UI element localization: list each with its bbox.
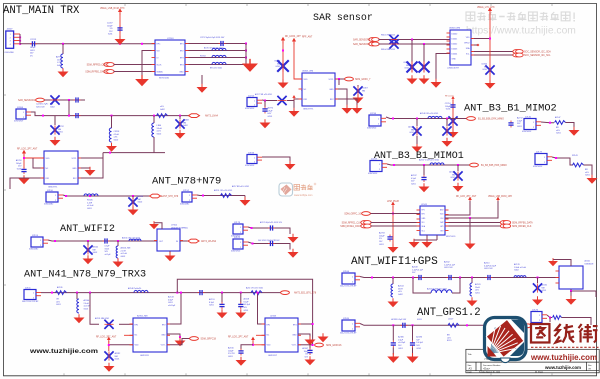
capacitor A2186 [410, 341, 415, 348]
svg-text:G201 50V: G201 50V [444, 267, 453, 269]
wire stub [240, 293, 242, 303]
svg-text:NM: NM [406, 65, 409, 67]
ground [422, 239, 433, 248]
wire stub [76, 293, 78, 299]
svg-text:A2147: A2147 [555, 116, 560, 119]
svg-text:G402: G402 [121, 256, 126, 258]
ic U2301 [133, 318, 167, 352]
svg-text:www.tuzhijie.com: www.tuzhijie.com [530, 352, 597, 362]
connector J2217 [368, 158, 387, 175]
wire stub [392, 325, 394, 340]
wire NC [256, 334, 265, 336]
svg-text:U6301_NM: U6301_NM [302, 71, 313, 73]
wire rffe6 dat [445, 222, 501, 224]
svg-text:G201: G201 [404, 68, 409, 70]
junction [179, 336, 181, 338]
wire vreg path [445, 201, 498, 218]
power VREG_L7C [488, 7, 492, 14]
wire RF1 [294, 99, 302, 109]
inductor A3216 [116, 246, 118, 258]
svg-text:D0003: D0003 [452, 49, 458, 51]
wire to box [393, 213, 420, 215]
svg-text:NM: NM [138, 199, 141, 201]
svg-text:C6307: C6307 [362, 88, 368, 90]
svg-text:L3N6: L3N6 [157, 125, 162, 127]
wire rail [452, 100, 454, 130]
wire RF1 riser [258, 293, 266, 324]
wire cap stub [241, 345, 253, 349]
svg-text:4.3nH: 4.3nH [114, 134, 120, 136]
svg-text:A2110: A2110 [484, 262, 489, 265]
svg-text:6180143B2: 6180143B2 [44, 204, 53, 206]
connector J2194 [245, 152, 262, 167]
svg-text:SDM_GRFC16: SDM_GRFC16 [326, 345, 342, 347]
svg-text:J2113: J2113 [32, 235, 39, 237]
svg-text:SCL: SCL [466, 54, 470, 56]
svg-text:G201: G201 [108, 34, 113, 36]
ground [305, 336, 316, 345]
inductor L7214 [212, 55, 226, 57]
offpage SDM_GRFC_7 [345, 77, 354, 81]
ground [285, 161, 296, 170]
wire VDD2 [109, 344, 133, 346]
svg-text:NM: NM [542, 287, 545, 289]
svg-text:A2108: A2108 [412, 266, 418, 269]
svg-text:G402: G402 [114, 139, 119, 141]
offpage gps ant [523, 324, 532, 328]
svg-text:J2184: J2184 [343, 271, 350, 273]
capacitor C2215 NM [448, 116, 457, 125]
wire stub2 [412, 348, 414, 355]
offpage B1_B3 PRX [470, 163, 479, 167]
capacitor A1218 [21, 167, 26, 174]
junction [245, 57, 247, 59]
junction [411, 39, 413, 41]
ground [104, 363, 115, 372]
svg-text:G201: G201 [411, 183, 416, 185]
wire stub [87, 241, 89, 246]
junction [176, 292, 178, 294]
ground [485, 80, 496, 89]
svg-text:A3216_NM: A3216_NM [121, 247, 131, 250]
wire stub [411, 40, 413, 63]
connector J2212 [245, 95, 262, 110]
junction [65, 195, 67, 197]
capacitor A2198 NM [453, 171, 462, 180]
svg-text:J2194: J2194 [248, 152, 255, 154]
svg-text:EANT_N78_N79: EANT_N78_N79 [161, 195, 179, 198]
svg-text:6180143B2: 6180143B2 [29, 249, 38, 251]
svg-text:A2176: A2176 [514, 263, 520, 266]
svg-text:RF1: RF1 [422, 209, 425, 211]
svg-text:G201 50V: G201 50V [36, 106, 45, 108]
svg-text:2.4nH: 2.4nH [87, 202, 93, 204]
svg-text:NM: NM [183, 122, 186, 124]
wire SCL [471, 54, 514, 56]
svg-text:R6104 NM G201: R6104 NM G201 [381, 49, 395, 51]
capacitor A2703 [387, 235, 392, 242]
svg-text:U7203: U7203 [167, 38, 174, 40]
svg-text:A2148 OR ±4% G201: A2148 OR ±4% G201 [420, 112, 438, 115]
svg-text:G201: G201 [450, 177, 455, 179]
svg-text:3.6nH: 3.6nH [157, 128, 163, 130]
ic U2143 [420, 206, 445, 235]
wire to RF1 [119, 323, 133, 325]
watermark chinese gray [466, 12, 575, 22]
svg-text:VDD: VDD [135, 344, 140, 346]
svg-text:±0.1nH: ±0.1nH [84, 306, 91, 308]
svg-text:0.6µF: 0.6µF [398, 339, 404, 341]
wire [566, 123, 575, 129]
svg-text:G402: G402 [138, 202, 143, 204]
svg-text:C6303: C6303 [403, 62, 409, 64]
svg-text:RF2: RF2 [162, 324, 166, 326]
capacitor C6304 NM [485, 65, 494, 74]
junction [392, 324, 394, 326]
svg-text:SDM_RFFE1_CLK: SDM_RFFE1_CLK [342, 223, 362, 225]
svg-text:G402: G402 [93, 252, 98, 254]
junction [240, 292, 242, 294]
ground [175, 130, 186, 139]
ic U6300 [450, 30, 471, 65]
svg-text:±4%: ±4% [56, 301, 60, 303]
svg-text:J2152: J2152 [183, 190, 190, 192]
watermark logo center [279, 183, 316, 197]
wire VDD [471, 38, 490, 40]
svg-text:A3142: A3142 [93, 246, 99, 249]
svg-text:J2110: J2110 [47, 190, 54, 192]
wire VCTL [167, 339, 190, 345]
ground [19, 175, 30, 184]
wire VCTL [298, 344, 313, 346]
svg-text:GND: GND [72, 168, 77, 170]
junction [251, 227, 253, 229]
svg-text:RF2: RF2 [422, 214, 425, 216]
resistor R2143 [573, 163, 584, 167]
junction [471, 277, 473, 279]
svg-text:SAR_SENSOR1: SAR_SENSOR1 [353, 43, 371, 46]
wire n41 main [41, 292, 283, 294]
inductor A2167 [430, 163, 444, 165]
junction [423, 43, 425, 45]
junction [109, 152, 111, 154]
svg-text:ANT3_LNA4: ANT3_LNA4 [205, 115, 219, 118]
ground [106, 143, 117, 152]
capacitor C2217 [219, 41, 226, 46]
wire stub [62, 44, 64, 54]
wire RF2 [167, 293, 181, 324]
svg-text:ANT_WIFI1+GPS: ANT_WIFI1+GPS [351, 256, 438, 268]
wire stub [446, 119, 448, 127]
svg-text:A3156 OR ±4% G201: A3156 OR ±4% G201 [122, 236, 140, 239]
ground [235, 309, 246, 318]
offpage SAR_SENSOR2 [36, 98, 45, 102]
wire gnd stub [469, 218, 471, 241]
inductor L7215 [212, 62, 226, 64]
junction [89, 195, 91, 197]
junction [392, 118, 394, 120]
wire stub [537, 278, 539, 284]
junction [392, 213, 394, 215]
junction [68, 99, 70, 101]
wire stub [416, 136, 418, 144]
wire rail [489, 12, 491, 80]
connector J2173 [231, 222, 248, 238]
wire [584, 165, 593, 176]
wire lc branch [413, 278, 431, 294]
svg-text:A2183 0.5µF 50V: A2183 0.5µF 50V [391, 318, 406, 321]
ground [165, 252, 176, 261]
wire stub [264, 101, 266, 108]
inductor A2148b [428, 116, 442, 118]
wire vert [68, 100, 70, 116]
offpage ANT5 [281, 291, 290, 295]
offpage SOC_SENSOR_I2C_SCL [513, 53, 523, 57]
svg-text:A3: A3 [469, 366, 473, 370]
svg-text:8.2pF: 8.2pF [244, 301, 250, 303]
svg-text:6190743D2: 6190743D2 [245, 165, 254, 167]
inductor A2163 [431, 290, 452, 293]
power RF_LDO [281, 37, 285, 44]
resistor A2139 [56, 291, 67, 295]
wire RF2 [185, 50, 246, 52]
svg-text:B1_B3_B35_PRX_MIMO: B1_B3_B35_PRX_MIMO [481, 165, 507, 167]
svg-text:RF2: RF2 [180, 51, 184, 53]
ic U2101 [559, 266, 583, 289]
svg-text:A3134: A3134 [138, 195, 145, 198]
resistor R6104 NM [389, 39, 398, 48]
wire [197, 194, 245, 197]
svg-text:NM: NM [58, 129, 61, 131]
svg-text:A2163 3.9nH±4% G402: A2163 3.9nH±4% G402 [427, 287, 447, 290]
svg-text:GM13111: GM13111 [140, 355, 150, 357]
svg-text:1.8nH ±0.1nH: 1.8nH ±0.1nH [514, 267, 527, 269]
svg-text:±0.1pF: ±0.1pF [105, 254, 112, 256]
ground [465, 240, 476, 249]
svg-text:sx9031ULTRT: sx9031ULTRT [447, 67, 460, 69]
svg-text:8.3µF: 8.3µF [209, 302, 215, 304]
ground [242, 59, 258, 72]
svg-text:56nH: 56nH [398, 288, 403, 290]
svg-text:ANT_N41_N78_N79_TRX3: ANT_N41_N78_N79_TRX3 [24, 269, 146, 280]
svg-text:1/0.3µF: 1/0.3µF [416, 342, 423, 344]
resistor A2147 [555, 121, 566, 125]
svg-text:www.tuzhijie.com: www.tuzhijie.com [544, 365, 581, 370]
svg-text:A2703: A2703 [379, 232, 385, 235]
svg-text:Rev: Rev [588, 365, 592, 367]
capacitor A2197 [421, 175, 426, 182]
svg-text:100pF: 100pF [228, 350, 234, 352]
svg-text:C2207: C2207 [107, 23, 113, 25]
junction [108, 344, 110, 346]
svg-text:A2218: A2218 [244, 298, 250, 301]
svg-text:Sheet: Sheet [538, 371, 543, 374]
ground [128, 206, 139, 215]
svg-text:G402: G402 [50, 106, 55, 108]
wire stub [412, 325, 414, 340]
svg-text:ANT_B3_B1_MIMO2: ANT_B3_B1_MIMO2 [464, 103, 557, 115]
ground [288, 249, 299, 258]
wire cross [103, 152, 165, 154]
junction [282, 50, 284, 52]
svg-text:A2139: A2139 [57, 286, 62, 289]
svg-text:A2198: A2198 [449, 171, 455, 174]
ground [74, 314, 85, 323]
inductor A2148 [134, 290, 148, 292]
svg-text:VCPL: VCPL [329, 79, 334, 81]
ground [217, 309, 228, 318]
wire rail [392, 206, 394, 245]
svg-text:RF2: RF2 [73, 178, 77, 180]
svg-text:A7213 47nH±4% G402: A7213 47nH±4% G402 [204, 47, 223, 50]
svg-text:ANT_WIFI2: ANT_WIFI2 [60, 224, 115, 235]
junction [245, 43, 247, 45]
power [468, 197, 472, 203]
svg-text:A2307: A2307 [302, 347, 308, 350]
wire [552, 157, 573, 165]
svg-text:VDD: VDD [304, 79, 309, 81]
svg-text:4.2%: 4.2% [57, 62, 62, 64]
inductor L7213 [212, 48, 226, 50]
wire top pin [154, 223, 162, 229]
ground [419, 183, 430, 192]
junction [141, 43, 143, 45]
wire rail [282, 42, 284, 81]
wire GND [335, 89, 347, 106]
svg-text:ANT_N78+N79: ANT_N78+N79 [152, 176, 221, 188]
svg-text:A2717: A2717 [517, 117, 523, 120]
wire [547, 315, 552, 318]
wire RF2 [335, 99, 357, 106]
terminal EANT [150, 194, 161, 198]
svg-text:±0.05µF: ±0.05µF [398, 342, 406, 344]
svg-text:E201: E201 [447, 340, 452, 342]
svg-text:ANT4_WLAN2: ANT4_WLAN2 [201, 240, 217, 243]
wire NC [124, 334, 133, 336]
junction [42, 115, 44, 117]
ground [318, 333, 329, 342]
svg-text:VIO: VIO [157, 51, 161, 53]
wire SDA [471, 51, 514, 53]
svg-text:6180143B2: 6180143B2 [180, 204, 189, 206]
capacitor C3308 NM [175, 119, 184, 128]
offpage SDM_RFFE6_CLK [500, 224, 510, 228]
junction [412, 324, 414, 326]
svg-text:G201: G201 [105, 248, 110, 250]
wire gnd1 [426, 235, 428, 240]
svg-text:Sunday, August 30, 2020: Sunday, August 30, 2020 [479, 371, 500, 374]
svg-text:J2111: J2111 [25, 287, 31, 289]
svg-text:C2217 4pF±0.1pF G201 50V: C2217 4pF±0.1pF G201 50V [200, 37, 225, 39]
junction [117, 240, 119, 242]
ground [288, 234, 299, 243]
junction [180, 292, 182, 294]
svg-text:RF_LDO_2P7_ANT: RF_LDO_2P7_ANT [17, 148, 38, 151]
junction [446, 118, 448, 120]
ground [115, 36, 126, 45]
capacitor C2213 [30, 41, 37, 46]
svg-text:182pF: 182pF [30, 47, 36, 49]
wire wifi1 row [360, 277, 559, 278]
wire mimo1 [387, 164, 470, 165]
resistor R6101 NM [389, 35, 398, 44]
connector J2140 [522, 116, 541, 133]
ground [352, 105, 363, 114]
ground [353, 94, 364, 103]
offpage SDM_GRFC18 [190, 337, 199, 341]
capacitor A3134 NM [128, 197, 137, 206]
capacitor A2218 [238, 302, 243, 309]
junction [392, 277, 394, 279]
svg-text:6190743D2: 6190743D2 [245, 108, 254, 110]
svg-text:AV770: AV770 [56, 56, 62, 59]
ground [305, 356, 316, 365]
svg-text:SDM_RFFE0_CLK: SDM_RFFE0_CLK [87, 65, 107, 67]
svg-text:G201: G201 [542, 290, 547, 292]
junction [257, 292, 259, 294]
ground [236, 357, 247, 366]
svg-text:RFF_ANT: RFF_ANT [302, 36, 313, 39]
junction [89, 292, 91, 294]
svg-text:R6101 NM G201: R6101 NM G201 [381, 34, 395, 36]
capacitor A2774 [262, 107, 267, 114]
svg-text:50V G201 87µ80µPRD102: 50V G201 87µ80µPRD102 [258, 240, 279, 242]
connector J2207 [5, 29, 22, 54]
wire VREG rail [119, 13, 121, 37]
svg-text:±4%: ±4% [585, 172, 589, 174]
wire grfc [371, 213, 394, 215]
svg-text:VDD: VDD [46, 158, 51, 160]
wire RF1 [185, 43, 246, 45]
svg-text:J2216: J2216 [370, 113, 377, 115]
svg-text:16nH: 16nH [475, 287, 480, 289]
junction [252, 243, 254, 245]
svg-text:300-217-SC-T8T-BP: 300-217-SC-T8T-BP [340, 286, 357, 288]
svg-text:U7102: U7102 [171, 224, 178, 226]
connector J2113 [29, 235, 48, 251]
wire NC [33, 158, 44, 168]
junction [371, 277, 373, 279]
capacitor A2717 [508, 121, 513, 128]
wire bot pin [169, 251, 171, 254]
power [251, 337, 255, 343]
svg-text:G402: G402 [160, 109, 165, 111]
ground [387, 353, 399, 363]
junction [54, 240, 56, 242]
junction [87, 240, 89, 242]
ground [409, 239, 420, 248]
svg-text:±0.05µF: ±0.05µF [168, 305, 176, 307]
ground [548, 258, 558, 266]
wire sensor1 [379, 43, 451, 45]
svg-text:1.4pF±0.1pF: 1.4pF±0.1pF [412, 269, 424, 271]
ground [569, 127, 580, 136]
capacitor A2108 [417, 275, 424, 280]
wire VCPL [78, 157, 103, 159]
wire stub [117, 241, 119, 246]
svg-text:SDM_GRFC18: SDM_GRFC18 [201, 339, 217, 341]
offpage SDM_RFFE1_DATA [361, 224, 371, 228]
svg-text:G201: G201 [517, 126, 522, 128]
junction [252, 344, 254, 346]
svg-text:SDM_RFFE1_DATA: SDM_RFFE1_DATA [340, 225, 361, 228]
svg-text:J2212: J2212 [248, 95, 255, 97]
svg-text:G201 50V: G201 50V [484, 268, 493, 270]
svg-text:D0002: D0002 [452, 44, 458, 46]
junction [412, 277, 414, 279]
power [451, 96, 454, 101]
svg-text:5%: 5% [110, 28, 113, 30]
